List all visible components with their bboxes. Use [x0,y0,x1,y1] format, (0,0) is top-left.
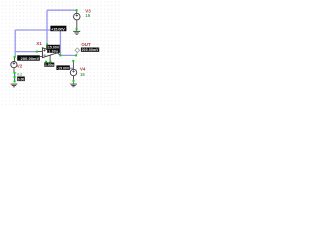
svg-text:15: 15 [85,13,90,18]
svg-text:0.00: 0.00 [18,77,25,81]
ground below V2 [11,84,18,88]
value label 0.00 at V2 ground node [17,77,25,82]
node pin junction at output [59,54,61,56]
node pin at X1 V+ supply [46,43,48,45]
node pin at V4 minus terminal [73,80,75,82]
wire feedback rail horizontal [15,29,60,31]
node pin at X1 lower left [45,61,47,63]
node pin at V3 plus terminal [76,9,78,11]
node pin mid V2 ground wire [14,76,16,78]
voltage source V3 (+15V) [74,10,81,29]
value label 200.00mV at OUT node [81,48,99,53]
voltage source V2 (200mV input) [11,57,17,73]
node pin at V3 minus terminal [76,28,78,30]
svg-text:-15.00V: -15.00V [57,66,70,70]
wire V+ rail vertical drop to op-amp V+ pin [46,10,48,44]
svg-text:15: 15 [80,72,85,77]
wire to non-inverting input [15,51,37,53]
wire V- net to V4 [70,67,74,69]
pin stub V+ supply of X1 [45,45,47,50]
wire V2 minus terminal to ground [14,73,16,82]
svg-text:1.00u: 1.00u [48,49,58,53]
svg-text:0.2: 0.2 [17,72,22,76]
value label 1.00u at X1 V- pin [44,63,54,68]
voltage source V4 (-15V) [70,61,76,80]
OUT probe diamond [75,48,80,55]
node pin at V4 plus terminal [72,60,74,62]
value label +15.00V on V+ rail [50,26,66,32]
pin stub V- supply of X1 [49,55,51,61]
value label 200.00mV at V2 output node [17,55,40,61]
wire output node to OUT probe [60,54,76,56]
svg-text:+15.00V: +15.00V [51,27,65,31]
node pin at non-inverting input [36,51,38,53]
wire feedback center vertical drop to output node [59,31,61,55]
svg-text:1.00u: 1.00u [45,63,54,67]
ground below V3 [73,29,80,35]
svg-text:200.00mV: 200.00mV [21,57,40,61]
node pin at V2 ground [14,80,16,82]
pin stub inverting input of X1 [40,56,43,58]
wire V3 plus terminal to V+ rail (top) [47,9,77,11]
node pin at V2 minus terminal [14,72,16,74]
pin stub non-inverting input of X1 [38,51,43,53]
svg-text:OUT: OUT [81,42,91,47]
pin stub output of X1 [58,53,61,55]
value label -15.00V on V- net [56,65,70,70]
svg-text:V4: V4 [80,67,86,72]
node pin at X1 V- supply [49,61,51,63]
value label 15.00V / 1.00u at X1 V+ pin [47,45,60,54]
op-amp U X1 triangle body with + and - marks [42,48,57,58]
node pin at V2 plus terminal [14,56,16,58]
node pin at OUT probe [75,54,77,56]
svg-text:200.00mV: 200.00mV [82,48,100,52]
svg-text:X1: X1 [36,41,42,46]
wire feedback left vertical drop [14,30,16,57]
ground below V4 [70,82,77,87]
svg-text:V2: V2 [17,64,23,69]
